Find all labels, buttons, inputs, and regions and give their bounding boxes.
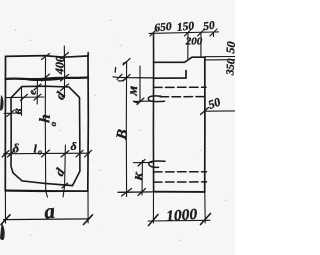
svg-text:650: 650 <box>154 21 173 35</box>
svg-text:δ: δ <box>13 141 20 156</box>
svg-text:1000: 1000 <box>166 206 198 225</box>
svg-text:o: o <box>38 148 42 157</box>
svg-text:50: 50 <box>223 41 235 54</box>
svg-text:200: 200 <box>185 35 203 47</box>
svg-text:150: 150 <box>176 20 195 34</box>
svg-text:м: м <box>126 85 142 97</box>
svg-text:400: 400 <box>52 56 67 75</box>
svg-text:350: 350 <box>224 58 235 77</box>
svg-text:δ: δ <box>71 139 77 153</box>
svg-text:50: 50 <box>203 20 216 34</box>
